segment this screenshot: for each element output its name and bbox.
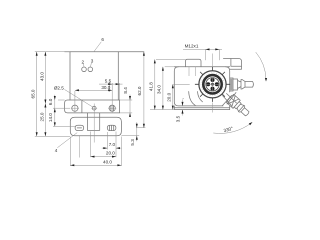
lower slot right: [107, 125, 116, 130]
dim 14.0: [48, 113, 56, 127]
slot centerline left: [78, 136, 80, 158]
rotation arc upper: [256, 52, 267, 81]
dim 62.0 right outer: [136, 52, 145, 128]
lower slot left: [75, 125, 84, 130]
svg-text:5.3: 5.3: [130, 139, 135, 146]
dim 34.0 side: [157, 67, 175, 110]
straight barb fitting right: [230, 78, 254, 91]
side view: body top edge: [174, 66, 229, 68]
svg-text:65.0: 65.0: [31, 89, 36, 98]
port circle 2: [82, 67, 87, 72]
svg-text:62.0: 62.0: [137, 86, 142, 95]
lower plate with rounded corners: [70, 117, 121, 136]
svg-text:43.0: 43.0: [39, 72, 44, 81]
side view: M12x1 dimension: [183, 44, 222, 61]
svg-text:Ø2.5: Ø2.5: [54, 86, 64, 91]
dim 40.0 bottom: [70, 137, 121, 167]
middle notch channel: [87, 113, 99, 130]
svg-text:20.0: 20.0: [106, 151, 115, 156]
dim 5.3: [121, 122, 139, 145]
mounting hole right: [108, 104, 116, 112]
nut dark ring: [203, 75, 221, 93]
dim 25.0 left: [39, 104, 46, 137]
elbow cross marks: [227, 93, 237, 105]
mounting hole left: [71, 104, 79, 112]
upper flange band: [65, 100, 120, 113]
side view: inner corner arcs bottom left: [189, 92, 203, 106]
label 3 leader: [90, 63, 93, 67]
cross slot hairlines: [206, 78, 220, 92]
balloon 6 leader: [94, 42, 101, 52]
dim 41.8 side outer: [149, 59, 186, 109]
side view: rear tab top right: [223, 59, 241, 70]
leader dia 2.5: [64, 89, 93, 107]
svg-text:25.0: 25.0: [39, 112, 44, 121]
balloon 4 leader: [57, 133, 77, 148]
svg-text:5.5: 5.5: [105, 79, 112, 84]
centerline of pilot hole: [93, 104, 95, 143]
side view: top boss: [186, 59, 202, 67]
rotation arc lower with 330 label: [213, 122, 252, 133]
svg-text:14.0: 14.0: [48, 113, 53, 122]
dim 3.5 side: [176, 99, 184, 122]
dim 20.0 side: [167, 84, 190, 109]
svg-text:2: 2: [82, 59, 85, 64]
svg-text:34.0: 34.0: [157, 85, 162, 94]
dim 8.4 right of flange: [120, 87, 133, 117]
angled swivel elbow fitting: [226, 94, 251, 118]
svg-text:6: 6: [101, 37, 104, 42]
dim 7.0 bottom: [102, 132, 122, 158]
svg-text:3.5: 3.5: [176, 115, 181, 122]
dim 43.0 left: [39, 52, 46, 104]
nut inner circle: [206, 78, 219, 91]
dim 20.0 bottom: [91, 132, 117, 158]
port circle 3: [88, 67, 93, 72]
side view: corner chamfer cross: [223, 96, 232, 106]
side view: bottom plate: [174, 106, 229, 110]
svg-text:20.0: 20.0: [167, 92, 172, 101]
svg-text:8.4: 8.4: [123, 87, 128, 94]
nut centerlines: [212, 54, 214, 113]
dim 5.5 top: [99, 79, 123, 107]
svg-text:M12x1: M12x1: [185, 44, 199, 49]
label 2 leader: [82, 64, 85, 67]
pilot hole center ø2.5: [91, 106, 97, 110]
front view body rectangle: [65, 52, 144, 100]
knurl texture ring: [201, 73, 224, 96]
svg-text:7.0: 7.0: [109, 142, 116, 147]
svg-text:41.8: 41.8: [149, 82, 154, 91]
knurled nut outer circle: [199, 71, 226, 98]
side view: hidden port lines under boss: [189, 67, 196, 76]
svg-text:4: 4: [55, 148, 58, 153]
dim 30.0: [75, 85, 112, 105]
dim 6.0: [48, 95, 75, 127]
knurl tick marks: [195, 67, 230, 102]
svg-text:30.0: 30.0: [101, 85, 110, 90]
side view: body outline: [174, 67, 229, 106]
svg-text:6.0: 6.0: [48, 98, 53, 105]
dim 65.0 left outer: [31, 52, 71, 137]
cross slot lobes: [206, 78, 219, 91]
svg-text:3: 3: [91, 58, 94, 63]
svg-text:40.0: 40.0: [103, 159, 112, 164]
